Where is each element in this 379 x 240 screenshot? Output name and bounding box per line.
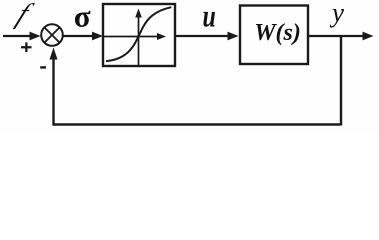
node: label sigma (error signal) <box>74 0 91 34</box>
node: label W(s) <box>254 20 301 46</box>
node: plus sign at summing junction input <box>21 42 32 52</box>
node: label u (control signal) <box>203 0 216 34</box>
block W(s): linear plant transfer function <box>240 6 308 65</box>
wire: feedback vertical rise into summing junction <box>50 48 58 126</box>
svg-text:f: f <box>12 0 37 29</box>
node: minus sign at feedback input <box>40 66 46 68</box>
node: label f (input signal) <box>12 0 37 29</box>
wire: feedback vertical drop on right <box>340 36 342 126</box>
svg-text:W(s): W(s) <box>254 20 301 46</box>
wire: summing junction to nonlinearity block <box>64 32 104 41</box>
nonlinearity vertical axis <box>135 9 142 66</box>
node: label y (output signal) <box>329 0 344 27</box>
svg-text:σ: σ <box>74 0 91 34</box>
wire: input signal f into summing junction <box>3 32 41 41</box>
summing junction (circle with X) <box>41 24 63 46</box>
wire: output y arrow <box>309 32 374 41</box>
nonlinearity horizontal axis <box>104 33 166 40</box>
wire: feedback bottom horizontal run <box>53 123 340 125</box>
nonlinearity block (saturation element) <box>103 4 175 66</box>
wire: nonlinearity output u to W(s) block <box>176 32 239 41</box>
nonlinearity sigmoid curve <box>106 7 171 61</box>
svg-text:y: y <box>329 0 344 27</box>
svg-text:u: u <box>203 0 216 34</box>
